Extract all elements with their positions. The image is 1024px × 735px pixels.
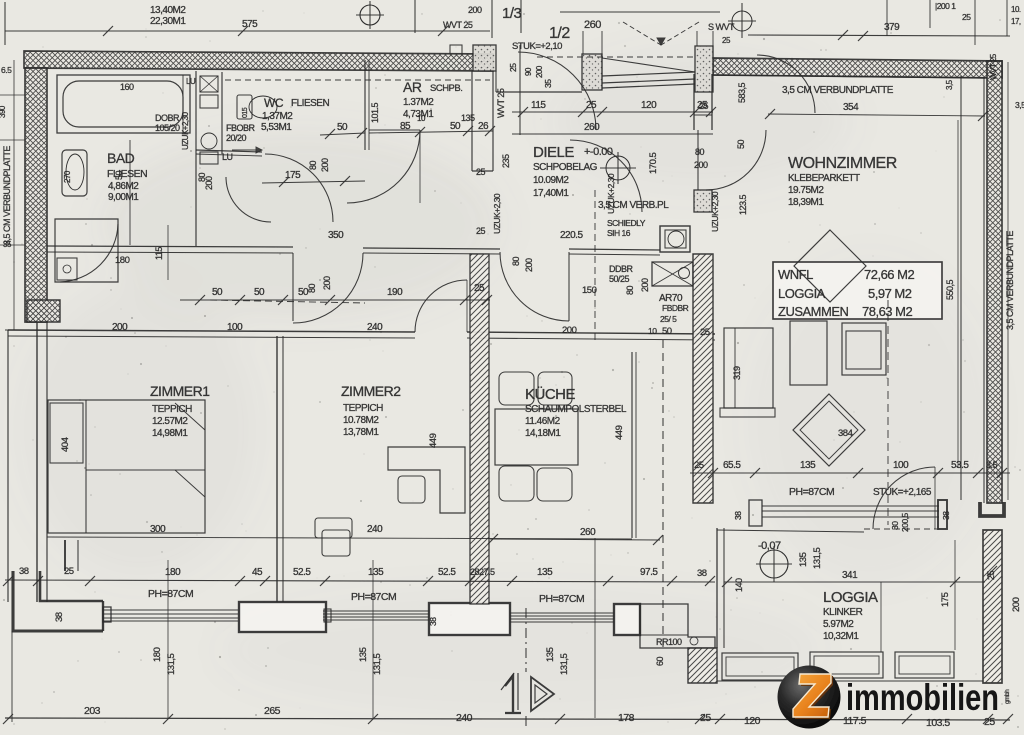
- svg-text:TEPPICH: TEPPICH: [343, 403, 383, 414]
- svg-text:220.5: 220.5: [560, 230, 583, 241]
- wc door arc: [265, 154, 333, 222]
- svg-text:319: 319: [732, 366, 742, 380]
- svg-text:50: 50: [212, 287, 223, 298]
- svg-text:25: 25: [586, 100, 597, 111]
- svg-text:390: 390: [0, 105, 7, 118]
- svg-text:13,78M1: 13,78M1: [343, 427, 379, 438]
- svg-text:404: 404: [60, 437, 71, 452]
- loggia small frames left: [430, 655, 508, 681]
- svg-text:WVT 25: WVT 25: [443, 20, 473, 30]
- svg-text:DIELE: DIELE: [533, 144, 574, 161]
- wohnzimmer window sill: [749, 500, 762, 526]
- svg-text:PH=87CM: PH=87CM: [789, 486, 834, 498]
- bad-wc shaft column: [195, 71, 197, 246]
- svg-text:45: 45: [252, 567, 263, 578]
- svg-text:KLEBEPARKETT: KLEBEPARKETT: [788, 173, 860, 184]
- svg-text:38: 38: [941, 511, 951, 520]
- svg-text:50: 50: [254, 287, 265, 298]
- svg-text:575: 575: [242, 19, 258, 30]
- svg-text:LOGGIA: LOGGIA: [823, 589, 878, 606]
- svg-text:LU: LU: [222, 152, 233, 162]
- svg-text:FLIESEN: FLIESEN: [107, 168, 147, 180]
- tv cabinet: [842, 323, 886, 375]
- entrance dashed leaf line: [537, 56, 695, 58]
- wall top exterior hatched: [24, 51, 493, 71]
- svg-text:135: 135: [537, 567, 553, 578]
- kueche table: [495, 409, 578, 465]
- area table box: [773, 262, 942, 319]
- svg-text:25: 25: [64, 566, 74, 577]
- svg-text:UZUK+2,30: UZUK+2,30: [606, 173, 616, 214]
- svg-text:RR100: RR100: [656, 637, 682, 647]
- svg-text:3,5 CM VERBUNDPLATTE: 3,5 CM VERBUNDPLATTE: [782, 85, 894, 96]
- svg-text:300: 300: [150, 524, 166, 535]
- corridor top wall: [47, 246, 293, 247]
- wall top-right exterior hatched: [713, 58, 1002, 78]
- svg-text:50: 50: [662, 326, 672, 337]
- header dim line: [5, 30, 490, 32]
- svg-text:200: 200: [562, 325, 577, 336]
- corridor bottom wall: [8, 330, 415, 332]
- svg-text:449: 449: [614, 425, 625, 440]
- svg-text:14,98M1: 14,98M1: [152, 428, 188, 439]
- svg-text:25: 25: [476, 226, 486, 236]
- svg-text:78,63 M2: 78,63 M2: [862, 304, 912, 319]
- svg-text:25: 25: [700, 327, 710, 338]
- svg-text:50: 50: [736, 139, 746, 149]
- svg-text:190: 190: [387, 287, 403, 298]
- svg-text:ZUSAMMEN: ZUSAMMEN: [778, 304, 849, 319]
- svg-text:1.37M2: 1.37M2: [403, 97, 434, 108]
- svg-text:97.5: 97.5: [640, 567, 658, 578]
- header crosshair symbol: [732, 11, 752, 31]
- svg-text:200: 200: [640, 278, 650, 292]
- svg-text:WVT 25: WVT 25: [989, 53, 998, 80]
- svg-text:120: 120: [744, 715, 761, 727]
- svg-text:175: 175: [940, 592, 951, 607]
- svg-text:80: 80: [307, 283, 317, 293]
- svg-text:WC: WC: [264, 96, 284, 110]
- wc toilet: [237, 95, 252, 119]
- window zimmer2 sill: [323, 610, 429, 612]
- wc bottom wall: [196, 150, 262, 152]
- svg-text:52.5: 52.5: [438, 567, 456, 578]
- svg-text:PH=87CM: PH=87CM: [351, 591, 396, 603]
- svg-text:ZIMMER1: ZIMMER1: [150, 383, 210, 399]
- svg-text:131,5: 131,5: [372, 654, 383, 675]
- svg-text:135: 135: [368, 567, 384, 578]
- logo circle: [778, 666, 841, 729]
- wall left exterior hatched: [25, 68, 47, 322]
- diele wall right of ar: [471, 71, 473, 171]
- svg-text:4,86M2: 4,86M2: [108, 181, 139, 192]
- svg-text:384: 384: [838, 428, 853, 439]
- diele door arc: [570, 140, 642, 212]
- svg-text:10.: 10.: [1011, 5, 1021, 14]
- loggia left wall: [716, 528, 718, 648]
- svg-text:17,40M1: 17,40M1: [533, 188, 569, 199]
- svg-text:10.78M2: 10.78M2: [343, 415, 379, 426]
- diele dashed centerline: [594, 190, 596, 340]
- svg-text:235: 235: [501, 154, 511, 168]
- ar left wall: [369, 129, 420, 131]
- svg-text:135: 135: [800, 460, 816, 471]
- svg-text:gmbh: gmbh: [1004, 689, 1011, 704]
- svg-text:10.09M2: 10.09M2: [533, 175, 569, 186]
- svg-text:379: 379: [884, 22, 900, 33]
- bottom main dim line: [5, 718, 1010, 720]
- svg-text:10,32M1: 10,32M1: [823, 631, 859, 642]
- svg-text:DOBR: DOBR: [155, 113, 180, 123]
- svg-text:270: 270: [63, 170, 72, 183]
- svg-text:9,00M1: 9,00M1: [108, 192, 139, 203]
- svg-text:015: 015: [242, 107, 249, 118]
- loggia window frame B: [810, 652, 883, 678]
- svg-text:25: 25: [700, 712, 711, 724]
- loggia window frame C: [895, 652, 954, 678]
- kueche right wall: [631, 352, 633, 538]
- svg-text:10: 10: [417, 114, 426, 123]
- svg-text:WVT 25: WVT 25: [496, 88, 506, 118]
- bottom pier A white: [239, 602, 326, 632]
- svg-text:260: 260: [584, 19, 601, 31]
- svg-text:350: 350: [328, 230, 344, 241]
- logo Z letter: [795, 676, 833, 719]
- bottom pier C white: [614, 604, 640, 635]
- zimmer2 desk: [388, 447, 465, 513]
- svg-text:203: 203: [84, 705, 101, 717]
- svg-text:80: 80: [625, 285, 635, 295]
- svg-text:22,30M1: 22,30M1: [150, 16, 186, 27]
- shaft pipe circle: [201, 133, 217, 149]
- svg-text:80: 80: [695, 147, 705, 157]
- svg-text:3,5 CM VERBUNDPLATTE: 3,5 CM VERBUNDPLATTE: [1005, 231, 1015, 330]
- svg-text:100: 100: [893, 460, 909, 471]
- svg-text:341: 341: [842, 570, 858, 581]
- svg-text:3,5: 3,5: [945, 79, 954, 90]
- svg-text:13,40M2: 13,40M2: [150, 5, 186, 16]
- svg-text:FLIESEN: FLIESEN: [291, 98, 329, 109]
- svg-text:26: 26: [478, 121, 489, 132]
- svg-text:200: 200: [112, 322, 128, 333]
- svg-text:140: 140: [734, 578, 744, 592]
- bottom-left corner wall L outline: [13, 571, 103, 631]
- svg-text:80: 80: [511, 256, 521, 266]
- svg-text:PH=87CM: PH=87CM: [539, 593, 584, 605]
- coffee table diamond: [793, 394, 865, 466]
- svg-text:449: 449: [428, 433, 439, 448]
- svg-text:25: 25: [962, 12, 971, 22]
- loggia door arc: [873, 467, 935, 529]
- svg-text:38: 38: [697, 568, 707, 579]
- svg-text:5,53M1: 5,53M1: [261, 122, 292, 133]
- wohnzimmer left wall hatched: [693, 254, 713, 503]
- window kueche sill: [510, 612, 614, 614]
- svg-text:+-0.00: +-0.00: [584, 146, 613, 158]
- svg-text:12.57M2: 12.57M2: [152, 416, 188, 427]
- svg-text:85: 85: [400, 121, 411, 132]
- svg-text:72,66 M2: 72,66 M2: [864, 267, 914, 282]
- zimmer1 door arc: [415, 280, 467, 332]
- svg-text:50: 50: [337, 122, 348, 133]
- svg-text:SCHPOBELAG: SCHPOBELAG: [533, 162, 598, 173]
- svg-text:25: 25: [474, 283, 485, 294]
- svg-text:170.5: 170.5: [648, 153, 659, 174]
- wc right wall: [364, 60, 366, 150]
- svg-text:200: 200: [468, 5, 482, 15]
- svg-text:60: 60: [655, 656, 665, 666]
- svg-text:10: 10: [648, 326, 657, 336]
- svg-text:WOHNZIMMER: WOHNZIMMER: [788, 155, 897, 172]
- window zimmer1 sill: [103, 609, 238, 611]
- svg-text:1/2: 1/2: [549, 25, 570, 42]
- svg-text:200: 200: [694, 160, 708, 170]
- svg-text:20/20: 20/20: [226, 133, 247, 143]
- svg-text:3.5: 3.5: [986, 460, 998, 470]
- svg-text:200,5: 200,5: [900, 512, 910, 532]
- svg-text:ZIMMER2: ZIMMER2: [341, 383, 401, 399]
- svg-text:LU: LU: [186, 77, 196, 86]
- diele level symbol: [606, 156, 630, 180]
- bottom dim line1: [5, 580, 715, 582]
- svg-text:1,37M2: 1,37M2: [262, 111, 293, 122]
- svg-text:150: 150: [582, 285, 597, 296]
- shower: [55, 219, 118, 282]
- svg-text:115: 115: [531, 100, 546, 111]
- svg-text:583,5: 583,5: [737, 82, 747, 103]
- svg-text:200: 200: [322, 276, 332, 290]
- svg-text:90: 90: [524, 67, 533, 76]
- svg-text:120: 120: [641, 100, 657, 111]
- svg-text:immobilien: immobilien: [846, 677, 999, 718]
- svg-text:25: 25: [694, 460, 704, 471]
- vestibule door leaf and arc: [292, 253, 294, 321]
- zimmer1 left wall: [36, 322, 38, 602]
- entrance door leaf: [602, 72, 695, 76]
- svg-text:3,5 CM VERBUNDPLATTE: 3,5 CM VERBUNDPLATTE: [2, 146, 12, 245]
- rooms dim line: [47, 537, 632, 539]
- top band notch: [450, 45, 462, 56]
- svg-text:240: 240: [367, 524, 383, 535]
- svg-text:65.5: 65.5: [723, 460, 741, 471]
- svg-text:131,5: 131,5: [812, 548, 823, 569]
- entrance recess wall lines: [496, 91, 582, 93]
- svg-text:135: 135: [798, 552, 809, 567]
- svg-text:KLINKER: KLINKER: [823, 607, 863, 618]
- svg-text:SIH 16: SIH 16: [607, 228, 631, 238]
- svg-text:200: 200: [320, 158, 330, 172]
- svg-text:240: 240: [456, 712, 473, 724]
- zimmer2-kueche wall hatched: [470, 254, 489, 604]
- svg-text:|200 1: |200 1: [935, 1, 956, 11]
- svg-text:200: 200: [204, 176, 214, 190]
- svg-text:KÜCHE: KÜCHE: [525, 385, 576, 403]
- svg-text:AR: AR: [403, 79, 422, 95]
- wall right cap U border: [980, 502, 1004, 516]
- ar70 shaft: [652, 262, 693, 286]
- svg-text:200: 200: [524, 258, 534, 272]
- section marker 1: [505, 676, 521, 713]
- header level crosshair left: [360, 5, 380, 25]
- svg-text:5,97 M2: 5,97 M2: [868, 286, 912, 301]
- svg-text:38: 38: [19, 566, 29, 577]
- corridor dashed ceiling line: [210, 300, 365, 303]
- washbasin: [62, 150, 87, 196]
- wall right exterior hatched: [987, 61, 1002, 503]
- wall left foot hatched: [27, 300, 60, 322]
- svg-text:180: 180: [115, 255, 130, 266]
- entrance pier mid: [582, 54, 602, 90]
- svg-text:200: 200: [535, 65, 544, 78]
- svg-text:30: 30: [890, 521, 900, 530]
- header long line right: [748, 35, 1010, 36]
- kueche door leaf and arc: [568, 252, 570, 321]
- wohnzimmer right window lines: [960, 76, 962, 500]
- svg-text:160: 160: [120, 82, 134, 92]
- svg-text:103.5: 103.5: [926, 717, 950, 729]
- svg-text:5.97M2: 5.97M2: [823, 619, 854, 630]
- svg-text:S WVT: S WVT: [708, 22, 735, 32]
- svg-text:BAD: BAD: [107, 150, 135, 166]
- svg-text:180: 180: [152, 647, 163, 662]
- entrance pier right: [695, 46, 713, 92]
- svg-text:131,5: 131,5: [559, 654, 570, 675]
- zimmer2 side table: [315, 518, 352, 538]
- svg-text:14,18M1: 14,18M1: [525, 428, 561, 439]
- chimney schiedl: [660, 226, 690, 252]
- entrance swing direction dashes: [623, 22, 661, 45]
- sofa: [724, 328, 773, 408]
- svg-text:18,39M1: 18,39M1: [788, 197, 824, 208]
- wohnzimmer entry arc: [757, 55, 815, 113]
- zimmer divider wall: [276, 336, 278, 602]
- svg-text:265: 265: [264, 705, 281, 717]
- svg-text:50: 50: [450, 121, 461, 132]
- svg-text:354: 354: [843, 102, 859, 113]
- armchair rect: [790, 321, 827, 385]
- kueche dashed projection line: [662, 340, 664, 648]
- svg-text:LOGGIA: LOGGIA: [778, 286, 826, 301]
- svg-text:260: 260: [584, 122, 600, 133]
- loggia window frame A: [722, 653, 798, 680]
- kueche chairs: [499, 372, 534, 405]
- svg-text:6.5: 6.5: [1, 65, 12, 75]
- kueche bottom wall step: [640, 604, 715, 648]
- svg-text:11.46M2: 11.46M2: [525, 416, 561, 427]
- bad door arc: [226, 177, 271, 222]
- svg-text:38: 38: [428, 617, 438, 626]
- svg-text:200: 200: [1011, 597, 1022, 612]
- dashed line wohnzimmer: [887, 300, 889, 525]
- svg-text:FBDBR: FBDBR: [662, 303, 689, 313]
- svg-text:25/ 5: 25/ 5: [660, 314, 677, 324]
- svg-text:17,: 17,: [1011, 17, 1021, 26]
- left outer facade line: [7, 330, 9, 602]
- svg-text:100: 100: [227, 322, 243, 333]
- wohnzimmer left wall upper: [693, 74, 695, 130]
- loggia right wall hatched: [983, 530, 1002, 683]
- svg-text:38: 38: [733, 511, 743, 520]
- svg-text:SCHPB.: SCHPB.: [430, 83, 462, 94]
- svg-text:123.5: 123.5: [738, 194, 748, 215]
- loggia left wall foot hatched: [688, 648, 717, 683]
- svg-text:50/25: 50/25: [609, 274, 630, 284]
- wohnzimmer inner wall line top: [713, 75, 985, 78]
- svg-text:1/3: 1/3: [502, 5, 522, 22]
- svg-text:UZUK+2,30: UZUK+2,30: [492, 193, 502, 234]
- svg-text:550,5: 550,5: [945, 279, 955, 300]
- svg-text:25: 25: [508, 63, 518, 72]
- svg-text:180: 180: [165, 567, 181, 578]
- svg-text:35: 35: [3, 240, 12, 249]
- svg-text:2827.5: 2827.5: [470, 567, 495, 577]
- svg-text:115: 115: [154, 247, 164, 260]
- svg-text:FBOBR: FBOBR: [226, 123, 256, 133]
- svg-text:240: 240: [367, 322, 383, 333]
- svg-text:38: 38: [54, 612, 65, 622]
- svg-text:135: 135: [545, 647, 556, 662]
- bathtub right edge line: [182, 75, 184, 133]
- dashed ceiling line wc-ar: [225, 79, 490, 81]
- svg-text:PH=87CM: PH=87CM: [148, 588, 193, 600]
- svg-text:25: 25: [699, 101, 709, 111]
- svg-text:DDBR: DDBR: [609, 264, 634, 274]
- entrance vestibule door arc: [518, 52, 596, 130]
- svg-text:101.5: 101.5: [370, 102, 380, 123]
- svg-text:35: 35: [543, 79, 553, 88]
- svg-text:UZUK+2,30: UZUK+2,30: [710, 191, 720, 232]
- svg-text:25: 25: [722, 36, 731, 45]
- svg-text:260: 260: [580, 527, 596, 538]
- svg-text:178: 178: [618, 712, 635, 724]
- dashed sill line: [864, 528, 939, 530]
- svg-text:135: 135: [358, 647, 369, 662]
- zimmer1 bed: [48, 400, 205, 533]
- entrance pier left: [473, 45, 496, 71]
- svg-text:80: 80: [308, 160, 318, 170]
- svg-text:SCHIEDLY: SCHIEDLY: [607, 218, 646, 228]
- svg-text:135: 135: [461, 113, 475, 123]
- diele-wohnzimmer door arc: [706, 130, 766, 190]
- bottom pier B white: [429, 603, 510, 635]
- bathtub: [57, 75, 190, 133]
- svg-text:19.75M2: 19.75M2: [788, 185, 824, 196]
- ar door arc: [347, 130, 420, 203]
- svg-text:3,5: 3,5: [1015, 100, 1024, 110]
- svg-text:52.5: 52.5: [293, 567, 311, 578]
- table diamond: [794, 230, 866, 302]
- svg-text:53.5: 53.5: [951, 460, 969, 471]
- svg-text:25: 25: [476, 167, 486, 177]
